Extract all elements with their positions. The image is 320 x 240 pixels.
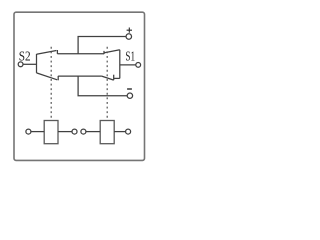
switch S1 top blade <box>104 50 119 53</box>
terminal + circle <box>126 34 132 40</box>
svg-text:S2: S2 <box>19 48 31 63</box>
switch S1 top contact tick <box>103 51 105 54</box>
wire top rail S2-S1 <box>57 53 104 55</box>
coil K2 box <box>100 121 114 144</box>
coil K1 left terminal circle <box>26 129 31 134</box>
wire S2 terminal to bar <box>23 63 36 65</box>
switch S2 terminal circle <box>18 62 23 67</box>
wire S1 bar to terminal <box>120 64 136 66</box>
mechanical link dashed left <box>50 47 52 120</box>
coil K2 left terminal circle <box>81 129 86 134</box>
coil K2 right terminal circle <box>126 129 131 134</box>
switch S1 bottom blade <box>101 76 113 80</box>
switch S2 top blade <box>37 51 57 55</box>
wire riser to + <box>78 37 126 54</box>
switch S2 top contact tick <box>56 50 58 54</box>
wire K1 right <box>58 131 72 133</box>
switch S2 bottom blade <box>37 73 58 80</box>
wire riser to - <box>78 76 127 96</box>
switch S1 bottom contact tick <box>113 75 115 80</box>
switch S1 terminal circle <box>136 63 141 68</box>
wire bottom rail S2-S1 <box>58 75 101 77</box>
border frame <box>14 12 145 160</box>
wire K2 right <box>114 131 125 133</box>
mechanical link dashed right <box>106 47 108 120</box>
switch S2 pole bar <box>36 54 38 73</box>
wire K1 left <box>31 131 44 133</box>
svg-text:S1: S1 <box>125 49 135 64</box>
terminal - circle <box>127 93 132 98</box>
plus sign <box>127 28 132 33</box>
switch S1 bottom link to bar <box>114 77 120 79</box>
minus sign <box>127 88 132 90</box>
wire K2 left <box>86 131 100 133</box>
switch S2 bottom contact tick <box>57 76 59 80</box>
switch S1 pole bar <box>119 50 121 79</box>
coil K1 right terminal circle <box>72 129 77 134</box>
coil K1 box <box>44 121 58 144</box>
